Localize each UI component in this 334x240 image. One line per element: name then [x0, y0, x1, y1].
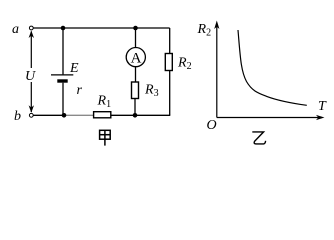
graph y-axis — [214, 21, 219, 118]
svg-text:U: U — [25, 69, 36, 84]
junction top ammeter — [133, 26, 138, 31]
curve R2 vs T — [238, 30, 307, 105]
graph x-axis — [217, 115, 325, 120]
junction top battery — [61, 26, 66, 31]
junction bottom R3 — [133, 113, 138, 118]
svg-text:A: A — [131, 50, 142, 66]
resistor R1 — [94, 112, 111, 118]
wire bottom left — [33, 114, 66, 116]
wire right branch top — [169, 28, 171, 54]
node b — [14, 109, 33, 124]
wire right branch bottom — [169, 71, 171, 116]
wire bottom gray segment — [66, 114, 94, 116]
label jia (甲) — [100, 130, 111, 145]
wire battery top — [62, 28, 64, 74]
wire top — [33, 27, 170, 29]
resistor R3 — [132, 82, 139, 99]
label yi (乙) — [252, 132, 265, 144]
svg-text:T: T — [318, 99, 327, 114]
voltage arrow U — [25, 31, 36, 113]
ammeter A — [126, 48, 145, 67]
junction bottom battery — [62, 113, 67, 118]
battery E — [51, 75, 73, 81]
node a — [12, 22, 33, 37]
wire R3 bottom — [134, 99, 136, 116]
wire battery bottom — [62, 83, 64, 115]
wire ammeter to R3 — [135, 67, 137, 82]
wire bottom right — [111, 114, 171, 116]
resistor R2 — [165, 54, 172, 71]
wire ammeter top — [135, 28, 137, 48]
svg-text:O: O — [207, 118, 217, 133]
svg-text:r: r — [77, 83, 83, 98]
svg-text:b: b — [14, 109, 21, 124]
svg-text:E: E — [69, 61, 79, 76]
svg-text:a: a — [12, 22, 19, 37]
